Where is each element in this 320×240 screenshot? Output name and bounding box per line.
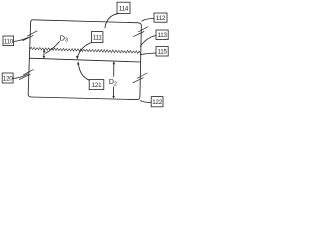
svg-text:121: 121: [92, 82, 102, 89]
svg-text:112: 112: [156, 15, 166, 22]
svg-text:113: 113: [157, 32, 167, 39]
svg-text:115: 115: [157, 49, 167, 56]
svg-text:2: 2: [114, 82, 117, 88]
svg-text:122: 122: [152, 99, 162, 106]
svg-text:111: 111: [93, 35, 103, 42]
svg-text:120: 120: [3, 76, 13, 83]
svg-text:3: 3: [65, 38, 68, 44]
svg-text:110: 110: [4, 38, 14, 45]
svg-text:114: 114: [119, 5, 129, 12]
